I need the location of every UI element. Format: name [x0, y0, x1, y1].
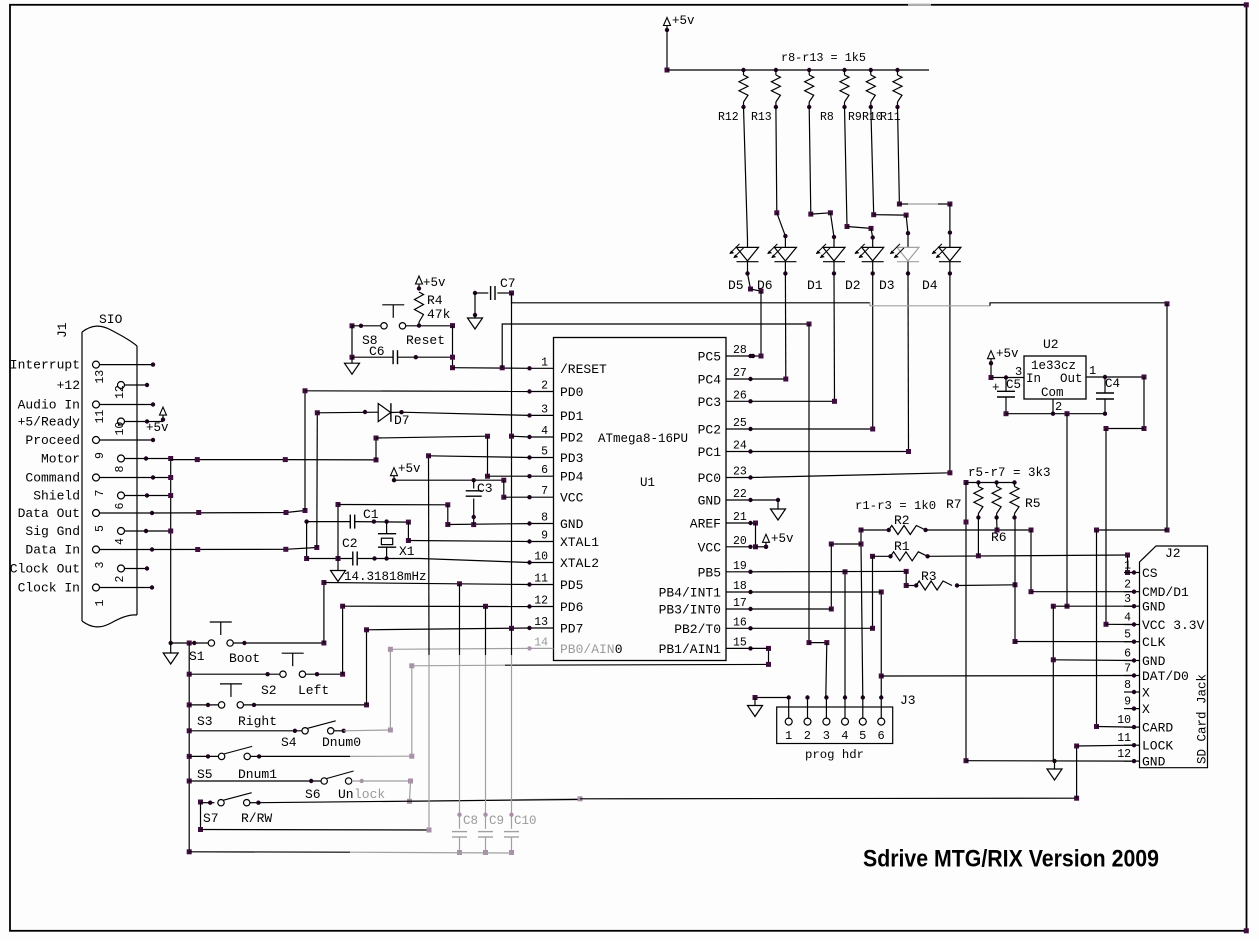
- svg-text:11: 11: [1117, 732, 1131, 745]
- svg-text:5: 5: [859, 729, 866, 743]
- svg-text:Clock Out: Clock Out: [10, 562, 80, 577]
- svg-text:27: 27: [733, 367, 747, 380]
- svg-text:J2: J2: [1165, 546, 1181, 561]
- wire S7 row: [198, 800, 203, 805]
- svg-text:D2: D2: [845, 278, 861, 293]
- svg-text:D5: D5: [728, 278, 744, 293]
- svg-text:16: 16: [733, 616, 747, 629]
- wire S3 row: [187, 702, 192, 707]
- U1 pin 9 XTAL1: [530, 541, 554, 543]
- wire C7 net right riser: [1166, 304, 1168, 530]
- wire gnd to J2 pin 12: [966, 760, 1134, 762]
- J3 pin 6: [878, 718, 885, 725]
- wire D6 to PC4: [784, 273, 786, 379]
- svg-text:D4: D4: [922, 278, 938, 293]
- wire R1 to CS: [928, 555, 1128, 556]
- svg-text:1: 1: [785, 729, 792, 743]
- svg-text:Interrupt: Interrupt: [10, 358, 80, 373]
- wire S6 to lock line (gray): [360, 779, 364, 783]
- resistor R7: [976, 480, 980, 484]
- wire r8-r13 top bus: [667, 69, 929, 71]
- svg-text:U2: U2: [1043, 337, 1059, 352]
- svg-text:R2: R2: [894, 513, 910, 528]
- wire S6 row: [187, 779, 192, 784]
- svg-text:6: 6: [114, 503, 127, 510]
- svg-text:+12: +12: [57, 378, 80, 393]
- svg-text:Out: Out: [1060, 372, 1083, 386]
- svg-text:AREF: AREF: [690, 517, 721, 532]
- svg-text:R/RW: R/RW: [241, 811, 272, 826]
- svg-text:Proceed: Proceed: [25, 433, 80, 448]
- wire S5 row: [187, 754, 192, 759]
- U1 pin 1 /RESET: [530, 367, 554, 369]
- J2 pin 3 GND: [1124, 605, 1140, 607]
- svg-text:/RESET: /RESET: [560, 362, 607, 377]
- resistor R6: [994, 480, 998, 484]
- wire PC4 corner: [751, 378, 786, 380]
- svg-text:lock: lock: [354, 787, 385, 802]
- J2 pin 6 GND: [1124, 660, 1140, 662]
- svg-text:18: 18: [733, 580, 747, 593]
- U1 pin 27 PC4: [726, 378, 751, 380]
- U1 pin 19 PB5: [726, 571, 751, 573]
- resistor R9: [842, 68, 846, 72]
- svg-text:C7: C7: [500, 276, 516, 291]
- svg-text:R1: R1: [894, 539, 910, 554]
- U1 pin 14 PB0/AIN0: [530, 647, 554, 649]
- wire U2 out to J2 VCC: [1142, 375, 1147, 380]
- node reset corner: [450, 323, 455, 328]
- U1 pin 18 PB4/INT1: [726, 591, 751, 593]
- svg-text:VCC: VCC: [560, 491, 584, 506]
- svg-text:R6: R6: [991, 530, 1007, 545]
- svg-text:r5-r7 = 3k3: r5-r7 = 3k3: [968, 466, 1051, 480]
- svg-text:3: 3: [823, 729, 830, 743]
- switch S8 (Reset pushbutton): [350, 323, 355, 328]
- svg-text:VCC 3.3V: VCC 3.3V: [1142, 618, 1205, 633]
- J2 pin 1 CS: [1124, 572, 1140, 574]
- wire S1 to PD5: [233, 642, 324, 644]
- svg-text:Sig Gnd: Sig Gnd: [25, 524, 80, 539]
- svg-text:X: X: [1142, 686, 1150, 701]
- wire to CLK pin: [1015, 641, 1134, 643]
- switch S1 (Boot): [208, 640, 214, 646]
- svg-text:13: 13: [94, 370, 107, 384]
- wire PD2 stub: [512, 435, 530, 438]
- svg-text:J3: J3: [900, 693, 916, 708]
- svg-text:Data In: Data In: [25, 543, 80, 558]
- U1 pin 7 VCC: [530, 496, 554, 498]
- svg-text:GND: GND: [1142, 755, 1166, 770]
- svg-text:1: 1: [541, 356, 548, 369]
- svg-text:S2: S2: [261, 683, 277, 698]
- ground (S1 row): [169, 641, 173, 645]
- svg-text:12: 12: [114, 385, 127, 399]
- resistor R4: [415, 292, 424, 322]
- svg-text:Right: Right: [238, 714, 277, 729]
- wire J3 pin6 riser (PB4): [880, 592, 882, 698]
- svg-text:PD1: PD1: [560, 409, 584, 424]
- svg-text:C10: C10: [514, 814, 537, 828]
- U1 pin 28 PC5: [726, 355, 751, 357]
- power +5v (PD4 area): [391, 468, 398, 476]
- resistor R13: [774, 68, 778, 72]
- svg-text:PB2/T0: PB2/T0: [674, 622, 721, 637]
- svg-text:24: 24: [733, 440, 747, 453]
- wire gnd riser x=189: [188, 643, 190, 852]
- wire R1 left to PB2: [872, 556, 874, 628]
- svg-text:PC0: PC0: [698, 471, 721, 486]
- diode D7: [317, 411, 378, 414]
- svg-text:S7: S7: [203, 811, 219, 826]
- wire reset net riser to prog hdr: [502, 324, 809, 368]
- wire U2 com gnd rail: [1006, 413, 1105, 415]
- J2 pin 9 X: [1124, 708, 1140, 710]
- svg-text:GND: GND: [560, 517, 584, 532]
- svg-text:Audio In: Audio In: [18, 398, 80, 413]
- svg-text:8: 8: [1124, 679, 1131, 692]
- wire S3 to PD7: [244, 704, 367, 706]
- LED D2: [862, 247, 884, 261]
- node lock line junction: [578, 796, 583, 801]
- svg-text:R12: R12: [718, 111, 739, 124]
- svg-text:PB0/AIN: PB0/AIN: [560, 642, 615, 657]
- svg-text:CMD/D1: CMD/D1: [1142, 585, 1189, 600]
- svg-text:U1: U1: [640, 476, 655, 490]
- svg-text:2: 2: [114, 576, 127, 583]
- svg-text:S1: S1: [189, 649, 205, 664]
- wire S8 left to gnd: [351, 326, 353, 357]
- J2 pin 11 LOCK: [1124, 744, 1140, 746]
- svg-text:C8: C8: [463, 814, 478, 828]
- switch S6 (Unlock): [321, 778, 327, 784]
- svg-text:+5v: +5v: [996, 347, 1019, 361]
- wire S7 right to lock line: [250, 802, 259, 804]
- U1 pin 23 PC0: [726, 477, 751, 479]
- J3 pin 4: [842, 718, 849, 725]
- resistor R11: [895, 68, 899, 72]
- wire R11 to D4: [898, 107, 900, 204]
- wire R3 to CLK riser: [957, 584, 1015, 587]
- LED D3: [897, 247, 919, 261]
- J2 pin 7 DAT/D0: [1124, 675, 1140, 677]
- U1 pin 26 PC3: [726, 400, 751, 402]
- svg-text:10: 10: [534, 551, 548, 564]
- U1 pin 5 PD3: [530, 457, 554, 459]
- svg-text:S6: S6: [305, 787, 321, 802]
- svg-text:9: 9: [541, 530, 548, 543]
- svg-text:C3: C3: [477, 481, 493, 496]
- svg-text:VCC: VCC: [698, 540, 722, 555]
- ground (U1 pin 22): [777, 500, 779, 506]
- wire lock line to J2 LOCK: [580, 797, 1077, 800]
- svg-text:6: 6: [541, 464, 548, 477]
- svg-text:Command: Command: [25, 471, 80, 486]
- wire Data In to D7: [152, 548, 317, 550]
- switch S4 (Dnum0): [302, 728, 308, 734]
- svg-text:C9: C9: [489, 814, 504, 828]
- svg-text:D1: D1: [807, 278, 823, 293]
- J2 pin 5 CLK: [1124, 641, 1140, 643]
- svg-text:13: 13: [534, 616, 548, 629]
- svg-text:+: +: [992, 381, 1000, 395]
- connector J2 SD Card Jack outline: [1140, 546, 1208, 768]
- wire reset net to pin 1: [453, 367, 530, 370]
- U1 pin 25 PC2: [726, 428, 751, 430]
- switch S5 (Dnum1): [218, 753, 224, 759]
- svg-text:CLK: CLK: [1142, 635, 1166, 650]
- svg-text:11: 11: [94, 410, 107, 424]
- svg-text:10: 10: [114, 422, 127, 436]
- node PD2 junction: [509, 434, 514, 439]
- svg-text:6: 6: [878, 729, 885, 743]
- svg-text:9: 9: [94, 452, 107, 459]
- svg-text:+5v: +5v: [672, 14, 695, 28]
- svg-text:PC2: PC2: [698, 423, 721, 438]
- wire Shield to riser: [147, 495, 171, 497]
- U1 pin 20 VCC: [726, 546, 751, 548]
- svg-text:J1: J1: [55, 322, 70, 338]
- power +5v (U2 in): [988, 351, 995, 359]
- svg-text:Com: Com: [1041, 386, 1064, 400]
- svg-text:PC5: PC5: [698, 350, 721, 365]
- svg-text:21: 21: [733, 511, 747, 524]
- U1 pin 10 XTAL2: [530, 562, 554, 564]
- wire R2 left to PB3: [831, 543, 861, 545]
- connector J1 SIO outline: [82, 332, 137, 621]
- wire Motor net to PD4 corner: [171, 459, 376, 461]
- svg-text:C4: C4: [1105, 377, 1120, 391]
- IC U2 1e33cz body: [1024, 356, 1086, 399]
- U1 pin 22 GND: [726, 499, 751, 501]
- svg-text:R7: R7: [946, 497, 962, 512]
- svg-text:S5: S5: [197, 767, 213, 782]
- wire PC3 corner: [751, 400, 835, 402]
- svg-text:Sdrive MTG/RIX Version 2009: Sdrive MTG/RIX Version 2009: [863, 846, 1159, 873]
- wire J3 pin3 riser: [826, 643, 827, 698]
- svg-text:PD4: PD4: [560, 470, 584, 485]
- wire GND22 stub: [751, 499, 779, 501]
- node gnd stub left of crystal: [304, 519, 308, 523]
- ground (C7): [474, 315, 476, 318]
- LED D4: [939, 247, 961, 261]
- svg-text:12: 12: [534, 595, 548, 608]
- wire R8 to D1: [809, 107, 811, 214]
- svg-text:4: 4: [114, 538, 127, 545]
- svg-text:+5v: +5v: [398, 462, 421, 476]
- switch S7 (R/RW): [218, 800, 224, 806]
- svg-text:0: 0: [615, 642, 623, 657]
- svg-text:D7: D7: [394, 413, 410, 428]
- svg-text:5: 5: [1124, 629, 1131, 642]
- wire +5v to U2 In: [990, 363, 992, 377]
- svg-text:1: 1: [1089, 364, 1096, 378]
- U1 pin 8 GND: [530, 523, 554, 525]
- svg-text:2: 2: [1055, 400, 1062, 414]
- J2 pin 4 VCC 3.3V: [1124, 624, 1140, 626]
- wire PB4 to DAT/D0: [879, 674, 884, 679]
- J3 pin 2: [804, 718, 811, 725]
- wire 3k3 bus: [964, 480, 969, 485]
- U1 pin 12 PD6: [530, 606, 554, 608]
- wire PB5 to R3: [751, 570, 907, 572]
- svg-text:8: 8: [541, 512, 548, 525]
- svg-text:D3: D3: [879, 278, 895, 293]
- U1 pin 13 PD7: [530, 627, 554, 629]
- wire R10 to D3: [871, 107, 874, 215]
- resistor R5: [1012, 480, 1016, 484]
- wire R13 to D6: [775, 107, 778, 213]
- J2 pin 8 X: [1124, 691, 1140, 693]
- wire R12 to D5: [744, 107, 748, 247]
- svg-text:Reset: Reset: [406, 333, 445, 348]
- resistor R10: [869, 68, 873, 72]
- J3 pin 5: [859, 718, 866, 725]
- wire PD3 to pin 5: [429, 456, 530, 458]
- svg-text:8: 8: [114, 466, 127, 473]
- U1 pin 17 PB3/INT0: [726, 608, 751, 610]
- wire R2 to CMD/D1: [926, 529, 1031, 531]
- wire +5v to VCC pin 7: [394, 479, 504, 481]
- power +5v (R4): [416, 276, 423, 284]
- wire CLK riser: [1014, 518, 1016, 642]
- U1 pin 6 PD4: [530, 475, 554, 477]
- svg-text:Left: Left: [298, 683, 329, 698]
- wire S2 to PD6: [306, 673, 343, 675]
- wire S5 to PB1 (gray): [250, 755, 259, 757]
- U1 pin 15 PB1/AIN1: [726, 647, 751, 649]
- svg-text:R8: R8: [820, 111, 834, 124]
- svg-text:7: 7: [1124, 663, 1131, 676]
- capacitor C8: [459, 584, 461, 655]
- svg-text:4: 4: [1124, 612, 1131, 625]
- J3 pin 1: [785, 718, 792, 725]
- svg-text:Boot: Boot: [229, 651, 260, 666]
- svg-text:7: 7: [94, 490, 107, 497]
- wire S4 to PB0 (gray): [334, 730, 344, 732]
- wire C7 net long run: [512, 293, 871, 303]
- wire S7 left to PD3 riser: [200, 803, 202, 830]
- ground (SD card): [1054, 761, 1056, 769]
- svg-text:+5v: +5v: [771, 532, 794, 546]
- ground (S8/C6): [351, 357, 353, 363]
- node PD4 net corner x376: [374, 457, 379, 462]
- ground (prog hdr): [754, 698, 756, 706]
- wire PC2 corner: [751, 428, 873, 430]
- svg-text:4: 4: [841, 729, 848, 743]
- svg-text:PB3/INT0: PB3/INT0: [659, 603, 721, 618]
- power +5v (U1 VCC pin 20): [764, 545, 768, 549]
- svg-text:7: 7: [541, 485, 548, 498]
- svg-text:PB1/AIN1: PB1/AIN1: [659, 642, 722, 657]
- svg-text:SIO: SIO: [99, 312, 123, 327]
- U1 pin 4 PD2: [530, 436, 554, 438]
- ground (crystal): [336, 556, 341, 561]
- svg-text:Dnum1: Dnum1: [238, 767, 277, 782]
- resistor R12: [741, 68, 745, 72]
- svg-text:14.31818mHz: 14.31818mHz: [344, 570, 427, 584]
- svg-text:PC4: PC4: [698, 373, 722, 388]
- resistor R8: [807, 68, 811, 72]
- wire D7 to PD1: [399, 410, 403, 414]
- svg-text:1e33cz: 1e33cz: [1031, 359, 1076, 373]
- power +5v (on J1 +5/Ready): [147, 421, 163, 423]
- LED D1: [823, 247, 845, 261]
- wire PD4 net top run: [376, 436, 488, 438]
- wire J3 pin1 to gnd: [755, 697, 789, 699]
- wire J3 pin4 riser (PB5): [844, 572, 846, 698]
- svg-text:Motor: Motor: [41, 452, 80, 467]
- capacitor C10: [511, 628, 513, 655]
- svg-text:r1-r3 = 1k0: r1-r3 = 1k0: [855, 499, 936, 513]
- svg-text:r8-r13 = 1k5: r8-r13 = 1k5: [781, 51, 866, 65]
- svg-text:+5/Ready: +5/Ready: [18, 415, 81, 430]
- svg-text:Data Out: Data Out: [18, 506, 80, 521]
- LED D6: [774, 247, 796, 261]
- wire S4 row: [187, 728, 192, 733]
- crystal X1: [378, 533, 396, 535]
- wire S2 row: [187, 672, 192, 677]
- wire XTAL1 to pin 9: [408, 541, 529, 542]
- wire Data Out to PD0: [152, 511, 305, 514]
- svg-text:19: 19: [733, 560, 747, 573]
- svg-text:Dnum0: Dnum0: [322, 735, 361, 750]
- svg-text:26: 26: [733, 389, 747, 402]
- svg-text:CARD: CARD: [1142, 721, 1173, 736]
- LED D5: [737, 247, 759, 261]
- wire Sig Gnd to riser: [146, 530, 171, 532]
- J2 pin 2 CMD/D1: [1124, 591, 1140, 593]
- svg-text:22: 22: [733, 488, 747, 501]
- svg-text:12: 12: [1117, 748, 1131, 761]
- svg-text:PD0: PD0: [560, 385, 583, 400]
- svg-text:S3: S3: [197, 714, 213, 729]
- svg-text:PD6: PD6: [560, 600, 583, 615]
- wire gnd riser x=966: [965, 483, 967, 761]
- wire cap gnd bus: [187, 849, 192, 854]
- J3 pin 3: [823, 718, 830, 725]
- wire gnd to C3/pin8: [337, 505, 339, 559]
- svg-text:R5: R5: [1025, 496, 1041, 511]
- svg-text:DAT/D0: DAT/D0: [1142, 669, 1189, 684]
- IC U1 ATmega8-16PU body: [554, 338, 727, 661]
- svg-text:Un: Un: [338, 787, 354, 802]
- U1 pin 2 PD0: [530, 391, 554, 393]
- svg-text:1: 1: [1124, 560, 1131, 573]
- svg-text:Clock In: Clock In: [18, 581, 80, 596]
- svg-text:25: 25: [733, 417, 747, 430]
- wire PD3 riser x=429: [428, 655, 430, 830]
- svg-text:SD Card Jack: SD Card Jack: [1196, 674, 1210, 764]
- svg-text:1: 1: [94, 600, 107, 607]
- svg-text:PD7: PD7: [560, 622, 583, 637]
- power +5v (top LED supply): [664, 18, 671, 26]
- svg-text:PD3: PD3: [560, 451, 583, 466]
- svg-text:6: 6: [1124, 648, 1131, 661]
- wire J1 gnd riser x=170: [146, 458, 171, 460]
- node reset/prog jog: [807, 640, 812, 645]
- svg-text:XTAL1: XTAL1: [560, 535, 599, 550]
- J2 pin 10 CARD: [1124, 726, 1140, 728]
- svg-text:R3: R3: [921, 569, 937, 584]
- U1 pin 11 PD5: [530, 584, 554, 586]
- svg-text:3: 3: [1124, 593, 1131, 606]
- svg-text:9: 9: [1124, 696, 1131, 709]
- svg-text:+5v: +5v: [146, 421, 169, 435]
- svg-text:GND: GND: [698, 494, 722, 509]
- wire C7 net to CARD: [1096, 530, 1098, 727]
- svg-text:GND: GND: [1142, 600, 1166, 615]
